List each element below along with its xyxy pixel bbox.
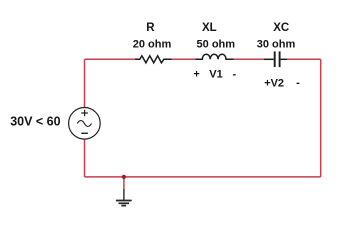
svg-text:XL: XL: [202, 22, 217, 34]
wire top segment (capacitor to corner): [287, 58, 321, 60]
capacitor XC 30 ohm: [264, 58, 274, 60]
ground: [123, 189, 125, 200]
wire top segment left (corner to resistor): [85, 58, 136, 60]
svg-text:30V < 60: 30V < 60: [10, 115, 60, 129]
inductor XL 50 ohm: [196, 54, 234, 59]
svg-text:20 ohm: 20 ohm: [133, 38, 172, 50]
svg-text:50 ohm: 50 ohm: [197, 39, 236, 51]
wire top segment (inductor to capacitor): [234, 58, 265, 60]
AC voltage source V 30V<60: [69, 108, 101, 140]
svg-text:+: +: [193, 68, 199, 80]
svg-text:-: -: [232, 68, 236, 80]
svg-text:-: -: [296, 77, 300, 89]
source plus sign: [81, 110, 88, 117]
svg-text:XC: XC: [273, 22, 289, 34]
wire top segment (resistor to inductor): [172, 58, 196, 60]
wire left side below source: [84, 139, 86, 177]
source sine wave: [77, 121, 91, 127]
svg-text:R: R: [146, 22, 155, 34]
source minus sign: [81, 132, 88, 134]
wire bottom side: [85, 176, 321, 178]
svg-text:30 ohm: 30 ohm: [257, 39, 296, 51]
node junction dot: [122, 175, 126, 179]
svg-text:V2: V2: [271, 78, 284, 90]
wire left side above source: [84, 59, 86, 107]
resistor R 20 ohm: [135, 56, 172, 63]
wire ground stem red part: [123, 177, 125, 190]
svg-text:V1: V1: [209, 69, 222, 81]
wire right side: [320, 59, 322, 177]
